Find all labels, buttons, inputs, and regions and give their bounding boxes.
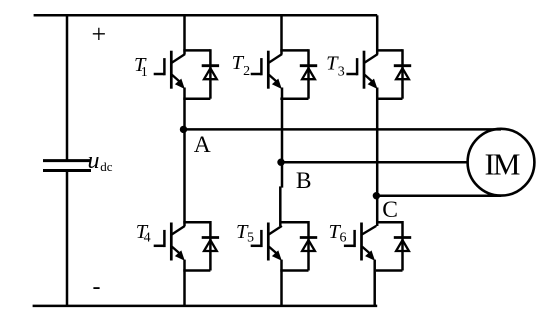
svg-text:-: -: [93, 274, 101, 300]
IGBT T2 collector diagonal: [269, 54, 282, 63]
svg-text:+: +: [91, 20, 106, 49]
wire: stub to diode D2 cathode: [280, 49, 308, 52]
IGBT T6 emitter arrowhead: [365, 250, 375, 260]
wire: stub from diode D2 anode: [280, 97, 308, 100]
IGBT T2 gate lead: [251, 73, 262, 76]
wire: bottom DC bus (-): [33, 305, 378, 308]
node B junction dot: [277, 159, 284, 166]
svg-text:1: 1: [141, 65, 148, 80]
wire: stub from diode D5 anode: [280, 269, 308, 272]
svg-text:IM: IM: [485, 147, 520, 182]
IGBT T3 gate bar: [356, 58, 359, 75]
IGBT T5 emitter diagonal: [269, 247, 279, 255]
svg-text:5: 5: [247, 231, 254, 246]
diode D5 triangle (anode, pointing up): [302, 240, 315, 251]
wire: diode D5 branch vertical: [307, 221, 310, 271]
IGBT T5 emitter arrowhead: [272, 250, 282, 260]
IGBT T3 emitter diagonal: [365, 75, 375, 83]
wire: diode D1 branch vertical: [209, 49, 212, 98]
IGBT T3 collector diagonal: [365, 54, 378, 63]
diode D3 triangle (anode, pointing up): [396, 68, 409, 79]
svg-text:u: u: [88, 148, 100, 174]
wire: leg 2 collector lead from top bus: [280, 15, 283, 54]
IGBT T1 emitter arrowhead: [175, 79, 185, 89]
svg-text:C: C: [382, 197, 398, 223]
IGBT T5 main bar: [267, 223, 270, 261]
wire: leg 3 collector lead from top bus: [376, 15, 379, 54]
IGBT T2 emitter arrowhead: [272, 79, 282, 89]
diode D1 cathode bar: [202, 64, 219, 67]
IGBT T2 main bar: [267, 51, 270, 89]
diode D6 triangle (anode, pointing up): [396, 240, 409, 251]
wire: leg 2 midpoint vertical lower (slight jog): [279, 186, 282, 226]
IGBT T4 main bar: [170, 223, 173, 261]
diode D2 triangle (anode, pointing up): [302, 68, 315, 79]
IGBT T1 collector diagonal: [172, 54, 185, 63]
diode D2 cathode bar: [300, 64, 317, 67]
wire: stub from diode D1 anode: [183, 97, 210, 100]
wire: emitter of T5 to bottom bus: [280, 260, 283, 306]
wire: stub to diode D5 cathode: [280, 221, 308, 224]
IGBT T5 collector diagonal: [269, 226, 282, 235]
IGBT T1 gate lead: [154, 73, 165, 76]
wire: stub from diode D4 anode: [183, 269, 210, 272]
wire: stub from diode D3 anode: [376, 97, 403, 100]
IGBT T2 gate bar: [260, 58, 263, 75]
capacitor C (DC-link) bottom plate: [43, 169, 91, 172]
IGBT T6 collector diagonal: [362, 226, 376, 235]
IGBT T4 gate bar: [163, 230, 166, 247]
wire: top DC bus (+): [34, 14, 378, 17]
node C junction dot: [373, 192, 380, 199]
induction motor IM circle: [468, 129, 535, 196]
wire: phase B output line to motor: [282, 161, 469, 164]
IGBT T3 gate lead: [346, 73, 357, 76]
wire: diode D4 branch vertical: [209, 221, 212, 271]
wire: phase A output line to motor: [185, 128, 502, 131]
IGBT T4 emitter diagonal: [172, 247, 182, 255]
wire: leg 1 midpoint vertical (emitter of T1 down through node): [183, 88, 186, 227]
node A junction dot: [180, 126, 187, 133]
wire: leg 2 midpoint vertical upper (through node B): [281, 88, 284, 188]
wire: stub from diode D6 anode: [376, 269, 403, 272]
IGBT T6 emitter diagonal: [362, 247, 372, 255]
diode D5 cathode bar: [300, 236, 317, 239]
svg-text:6: 6: [340, 231, 347, 246]
IGBT T3 main bar: [363, 51, 366, 89]
capacitor C (DC-link) top plate: [43, 159, 91, 162]
svg-text:3: 3: [338, 64, 345, 79]
wire: diode D3 branch vertical: [401, 49, 404, 98]
diode D4 cathode bar: [202, 236, 219, 239]
svg-text:dc: dc: [100, 159, 113, 174]
IGBT T5 gate bar: [260, 230, 263, 247]
svg-text:4: 4: [144, 231, 151, 246]
IGBT T1 emitter diagonal: [172, 75, 182, 83]
IGBT T4 emitter arrowhead: [175, 250, 185, 260]
IGBT T6 gate bar: [353, 230, 356, 247]
diode D3 cathode bar: [394, 64, 411, 67]
wire: capacitor branch upper lead: [66, 14, 69, 160]
wire: stub to diode D3 cathode: [376, 49, 403, 52]
wire: capacitor branch lower lead: [66, 171, 69, 308]
svg-text:B: B: [296, 168, 312, 194]
wire: diode D6 branch vertical: [401, 221, 404, 271]
wire: leg 3 midpoint vertical (emitter of T3 down through node): [376, 88, 379, 227]
svg-text:2: 2: [243, 64, 250, 79]
wire: stub to diode D1 cathode: [183, 49, 210, 52]
wire: emitter of T4 to bottom bus: [183, 260, 186, 306]
IGBT T6 main bar: [360, 223, 363, 261]
diode D6 cathode bar: [394, 236, 411, 239]
wire: emitter of T6 to bottom bus: [373, 260, 376, 306]
IGBT T3 emitter arrowhead: [368, 79, 378, 89]
wire: leg 1 collector lead from top bus: [183, 15, 186, 54]
IGBT T5 gate lead: [251, 245, 262, 248]
wire: stub to diode D4 cathode: [183, 221, 210, 224]
wire: phase C output line to motor: [377, 194, 501, 197]
diode D4 triangle (anode, pointing up): [204, 240, 217, 251]
IGBT T2 emitter diagonal: [269, 75, 279, 83]
IGBT T6 gate lead: [344, 245, 355, 248]
IGBT T4 gate lead: [154, 245, 165, 248]
svg-text:A: A: [194, 132, 211, 158]
wire: stub to diode D6 cathode: [376, 221, 403, 224]
diode D1 triangle (anode, pointing up): [204, 68, 217, 79]
IGBT T1 main bar: [170, 51, 173, 89]
IGBT T4 collector diagonal: [172, 226, 185, 235]
wire: diode D2 branch vertical: [307, 49, 310, 98]
IGBT T1 gate bar: [163, 58, 166, 75]
